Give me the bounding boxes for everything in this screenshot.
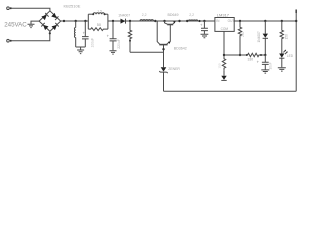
wire bottom of L1 to C1 bbox=[76, 46, 86, 48]
svg-text:1N4007: 1N4007 bbox=[257, 31, 261, 42]
ground G4 bbox=[261, 70, 269, 73]
svg-text:LM317: LM317 bbox=[217, 12, 230, 17]
svg-text:BD649: BD649 bbox=[168, 13, 179, 17]
ground G3 bbox=[201, 34, 209, 38]
svg-text:ZENER: ZENER bbox=[168, 67, 180, 71]
earth ground (bridge DC minus) bbox=[31, 21, 39, 24]
COM pin wire bbox=[223, 31, 225, 55]
svg-text:150: 150 bbox=[218, 63, 222, 68]
node dot x130 bbox=[129, 20, 131, 22]
bridge rectifier diamond bbox=[39, 11, 61, 31]
diode bridge lower-left bbox=[41, 23, 48, 30]
svg-text:100uF: 100uF bbox=[90, 38, 94, 48]
diode D1 1N4007 bbox=[121, 19, 126, 24]
svg-text:330: 330 bbox=[248, 57, 254, 61]
ground G2 bbox=[110, 51, 117, 54]
diode bridge lower-right bbox=[52, 23, 59, 30]
inductor L4 (rail coil right) bbox=[189, 20, 198, 21]
svg-text:OUT: OUT bbox=[228, 19, 235, 23]
svg-text:2,2: 2,2 bbox=[189, 13, 194, 17]
svg-text:LED: LED bbox=[287, 54, 294, 58]
wire right edge (output link) bbox=[295, 10, 297, 92]
node dot below bridge bbox=[49, 32, 51, 34]
diode D4 (to ground) bbox=[223, 71, 225, 76]
inductor L3 (rail coil) bbox=[140, 20, 153, 21]
terminal J1 (AC input top) bbox=[7, 7, 10, 10]
diode bridge upper-right bbox=[51, 13, 58, 20]
transistor Q2 BD3642 (lower, pass) bbox=[157, 21, 160, 44]
svg-text:BD3642: BD3642 bbox=[174, 46, 187, 50]
ground G1 bbox=[80, 47, 82, 50]
wire top AC bbox=[12, 8, 50, 11]
node dot x64 bbox=[63, 20, 65, 22]
diode bridge upper-left bbox=[41, 13, 48, 20]
svg-text:IN: IN bbox=[216, 19, 220, 23]
node dot R2 bottom bbox=[129, 40, 131, 42]
regulator U1 LM317 box bbox=[215, 18, 234, 32]
LED D3 bbox=[279, 54, 284, 58]
wire rail mid bbox=[108, 20, 215, 22]
node dot x281.8 bbox=[281, 20, 283, 22]
node dot x113 bbox=[112, 20, 114, 22]
wire rail from bridge bbox=[61, 20, 89, 22]
inductor top branch bbox=[88, 13, 93, 15]
capacitor C1 (filter, polarized) bbox=[84, 21, 86, 36]
svg-text:COM: COM bbox=[221, 27, 229, 31]
wire bottom rail bbox=[164, 90, 297, 92]
svg-text:1N4007: 1N4007 bbox=[118, 13, 130, 17]
capacitor C3 bbox=[203, 21, 205, 28]
inductor L1 (vertical choke) bbox=[75, 21, 77, 28]
wire rail out bbox=[234, 20, 296, 22]
node dot x85.4 bbox=[84, 20, 86, 22]
capacitor C2 (220uF) bbox=[112, 21, 114, 39]
svg-text:+: + bbox=[200, 23, 203, 28]
svg-text:2,2: 2,2 bbox=[142, 13, 147, 17]
transistor Q1 BD649 (upper) bbox=[167, 24, 173, 26]
svg-text:+: + bbox=[107, 34, 110, 39]
wire base link bbox=[130, 51, 164, 53]
svg-text:+: + bbox=[257, 60, 260, 65]
node dot x164.5 bbox=[163, 20, 165, 22]
ADJ wire bbox=[224, 54, 248, 56]
resistor R6 (below COM node) bbox=[222, 55, 225, 71]
node dot x199.5 bbox=[198, 20, 200, 22]
resistor R4 330 (horizontal) bbox=[248, 53, 266, 56]
resistor R3 (divider top) bbox=[238, 21, 241, 55]
wire bottom AC bbox=[12, 31, 50, 40]
resistor bottom branch bbox=[88, 28, 108, 31]
node dot x204.4 bbox=[203, 20, 205, 22]
node dot x187.2 bbox=[186, 20, 188, 22]
node dot x155.3 bbox=[154, 20, 156, 22]
ground G5 bbox=[278, 68, 286, 71]
diode D2 1N4007 (vertical) bbox=[264, 21, 266, 34]
parallel L2 / R1 block bbox=[88, 14, 108, 29]
svg-text:245VAC: 245VAC bbox=[4, 21, 27, 28]
svg-text:150: 150 bbox=[284, 34, 288, 40]
svg-text:KB2510E: KB2510E bbox=[64, 4, 81, 9]
svg-text:10uF: 10uF bbox=[269, 62, 273, 69]
node dot x75.7 bbox=[75, 20, 77, 22]
node dot x265.3 rail bbox=[264, 20, 266, 22]
svg-text:1,5: 1,5 bbox=[97, 9, 102, 13]
node dot x240 bbox=[239, 20, 241, 22]
capacitor C4 bbox=[264, 55, 266, 62]
terminal J2 (AC input bottom) bbox=[7, 39, 10, 42]
svg-text:220uF: 220uF bbox=[117, 39, 121, 49]
svg-text:50: 50 bbox=[97, 23, 101, 27]
resistor R5 (LED series) bbox=[280, 21, 283, 54]
zener Z1 bbox=[161, 67, 167, 71]
node dot x179.5 bbox=[178, 20, 180, 22]
resistor R2 (base feed, vertical) bbox=[128, 21, 131, 52]
base column to zener bbox=[163, 45, 165, 68]
svg-text:240: 240 bbox=[241, 31, 245, 37]
